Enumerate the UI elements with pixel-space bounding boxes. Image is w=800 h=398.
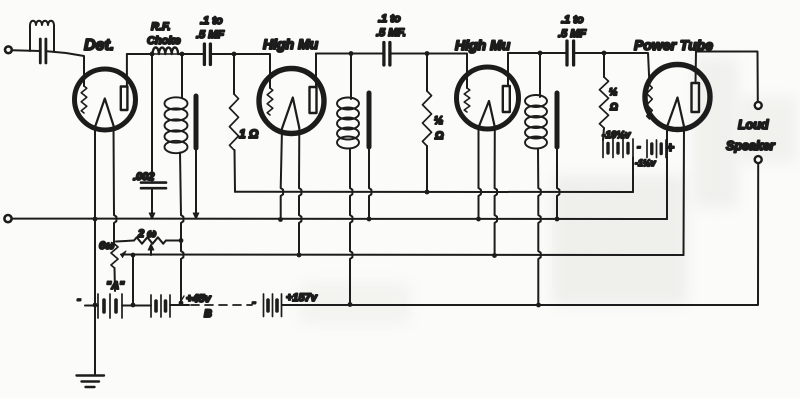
wire power right leg	[683, 127, 686, 256]
svg-text:Ω: Ω	[609, 102, 618, 113]
wire	[178, 53, 203, 55]
svg-text:.1 to: .1 to	[378, 13, 401, 25]
capacitor C5 .1-.5MF	[565, 41, 568, 65]
battery BT-A	[85, 305, 98, 307]
wire wiper drop x133	[132, 255, 134, 305]
wire choke2 top	[350, 54, 352, 100]
svg-text:-: -	[252, 295, 256, 309]
wire A to B1	[122, 305, 151, 307]
svg-text:.5 MF: .5 MF	[558, 28, 586, 40]
wire .002 branch	[151, 54, 153, 181]
grid U2	[267, 88, 273, 115]
ground symbol	[77, 374, 105, 376]
wire plate to speaker	[696, 52, 758, 103]
wiper arrow 2W	[150, 248, 152, 255]
svg-text:½: ½	[434, 115, 443, 127]
wire res2 bottom	[426, 146, 428, 192]
wire core1 to bus	[195, 148, 197, 214]
antenna input terminal top	[5, 46, 12, 53]
tube U4 Power envelope	[645, 65, 710, 130]
capacitor C2 .1-.5MF	[203, 44, 206, 65]
battery BT-C1	[602, 139, 604, 158]
svg-text:Speaker: Speaker	[726, 139, 776, 153]
speaker terminal bottom	[755, 156, 762, 163]
wire res2 top	[426, 54, 428, 92]
wire res1 top	[233, 54, 235, 94]
svg-text:2 ω: 2 ω	[137, 228, 156, 240]
svg-text:-1½v: -1½v	[635, 158, 657, 168]
coil L1 tank	[30, 21, 54, 51]
AF choke L2 coil	[165, 97, 188, 109]
wiper arrow rheostat	[121, 251, 126, 258]
AF choke L3 coil	[337, 98, 359, 110]
svg-text:-: -	[637, 141, 641, 153]
ground wire	[94, 126, 96, 374]
wire choke1 top	[181, 54, 183, 98]
wire .002 to bus	[151, 188, 153, 214]
battery BT-C2	[646, 140, 648, 158]
wire choke2 bottom to B+	[350, 149, 352, 305]
rheostat R4 6ohm	[111, 244, 118, 268]
plate lead U2	[315, 54, 317, 88]
svg-text:B: B	[204, 308, 212, 320]
grid U1	[81, 86, 87, 113]
svg-text:-10½v: -10½v	[602, 130, 632, 141]
svg-text:High Mu: High Mu	[263, 36, 319, 52]
svg-text:Choke: Choke	[147, 35, 181, 47]
capacitor C3 .002	[141, 181, 166, 184]
svg-text:+157v: +157v	[286, 292, 318, 304]
wire U2 left leg	[281, 129, 283, 220]
wire plate3 bus	[508, 52, 566, 54]
bus A-plus y255	[121, 254, 684, 257]
wire core3 to bus	[557, 147, 559, 219]
wire res1 bottom	[234, 150, 237, 192]
svg-text:.1 to: .1 to	[561, 14, 584, 26]
plate U2	[310, 87, 317, 113]
label +45v B	[181, 296, 184, 301]
wire rheostat bottom	[114, 268, 117, 291]
core bar choke1	[194, 96, 199, 148]
wire U3 right leg	[495, 127, 497, 256]
plate lead U3	[507, 53, 509, 86]
svg-text:6ω: 6ω	[99, 240, 114, 252]
filament U2	[282, 98, 299, 129]
svg-text:.5 MF: .5 MF	[196, 29, 224, 41]
core bar choke2	[367, 93, 372, 147]
wire C tap down	[632, 158, 634, 193]
wire B1 to tap	[170, 304, 189, 306]
svg-text:"A": "A"	[106, 280, 125, 292]
tube U3 High Mu envelope	[457, 67, 519, 129]
wire cap to grid2	[211, 54, 270, 88]
bus A-minus y219	[12, 218, 667, 220]
svg-text:1 Ω: 1 Ω	[239, 127, 259, 141]
plate lead U4	[695, 52, 698, 84]
bus grid-return y192	[235, 191, 633, 193]
svg-text:.002: .002	[133, 171, 154, 183]
wire det right leg	[114, 126, 117, 245]
svg-text:Det.: Det.	[84, 37, 114, 54]
svg-text:Loud: Loud	[738, 118, 769, 132]
wire choke1 bottom to +45 tap	[180, 153, 183, 302]
plate U4	[692, 83, 700, 112]
dashed B battery	[191, 304, 252, 306]
plate lead U1	[126, 54, 128, 87]
filament U1	[95, 99, 114, 128]
tube U1 Det envelope	[75, 69, 136, 130]
svg-text:½: ½	[609, 87, 617, 98]
plate U1	[121, 87, 128, 111]
wire speaker bottom to B+	[282, 163, 758, 305]
input terminal bottom	[4, 215, 11, 222]
svg-text:.5 MF.: .5 MF.	[376, 27, 406, 39]
resistor R3 half-ohm	[600, 77, 609, 128]
grid U4	[647, 85, 653, 119]
wire core2 to bus	[369, 147, 371, 219]
speaker terminal top	[755, 102, 762, 109]
resistor R2 half-ohm	[423, 91, 432, 146]
wire cap3 to power grid	[575, 53, 650, 85]
wire res3 to C battery	[603, 128, 604, 140]
potentiometer R5 2W	[116, 241, 134, 242]
filament U3	[479, 101, 495, 128]
svg-text:+45v: +45v	[186, 293, 212, 305]
wire cap to grid3	[391, 54, 467, 89]
wire U2 right leg	[299, 128, 301, 255]
grid U3	[464, 88, 470, 112]
tube U2 High Mu envelope	[259, 69, 324, 134]
wire choke3 top	[539, 53, 541, 97]
wire res3 top	[603, 53, 605, 77]
wire power left leg	[666, 126, 668, 220]
capacitor C1 tank	[39, 39, 42, 63]
wire tank to det grid	[47, 51, 84, 86]
battery BT-B1	[150, 295, 152, 317]
battery BT-B2	[263, 294, 265, 317]
wire plate2 bus	[316, 53, 383, 55]
wire U3 left leg	[479, 128, 481, 220]
svg-text:-: -	[77, 292, 81, 306]
RF choke	[153, 48, 179, 55]
wire	[12, 49, 40, 52]
capacitor C4 .1-.5MF	[382, 43, 385, 66]
wire choke3 bottom to B+	[538, 149, 541, 306]
svg-text:R.F.: R.F.	[151, 21, 171, 33]
resistor R1 1ohm	[230, 94, 239, 150]
filament U4	[668, 98, 685, 127]
wire plate bus y54	[127, 53, 153, 55]
svg-text:Ω: Ω	[434, 130, 444, 142]
AF choke L4 coil	[525, 95, 547, 107]
plate U3	[503, 86, 510, 112]
svg-text:.1 to: .1 to	[200, 15, 223, 27]
core bar choke3	[555, 93, 560, 147]
svg-text:High Mu: High Mu	[455, 37, 511, 53]
